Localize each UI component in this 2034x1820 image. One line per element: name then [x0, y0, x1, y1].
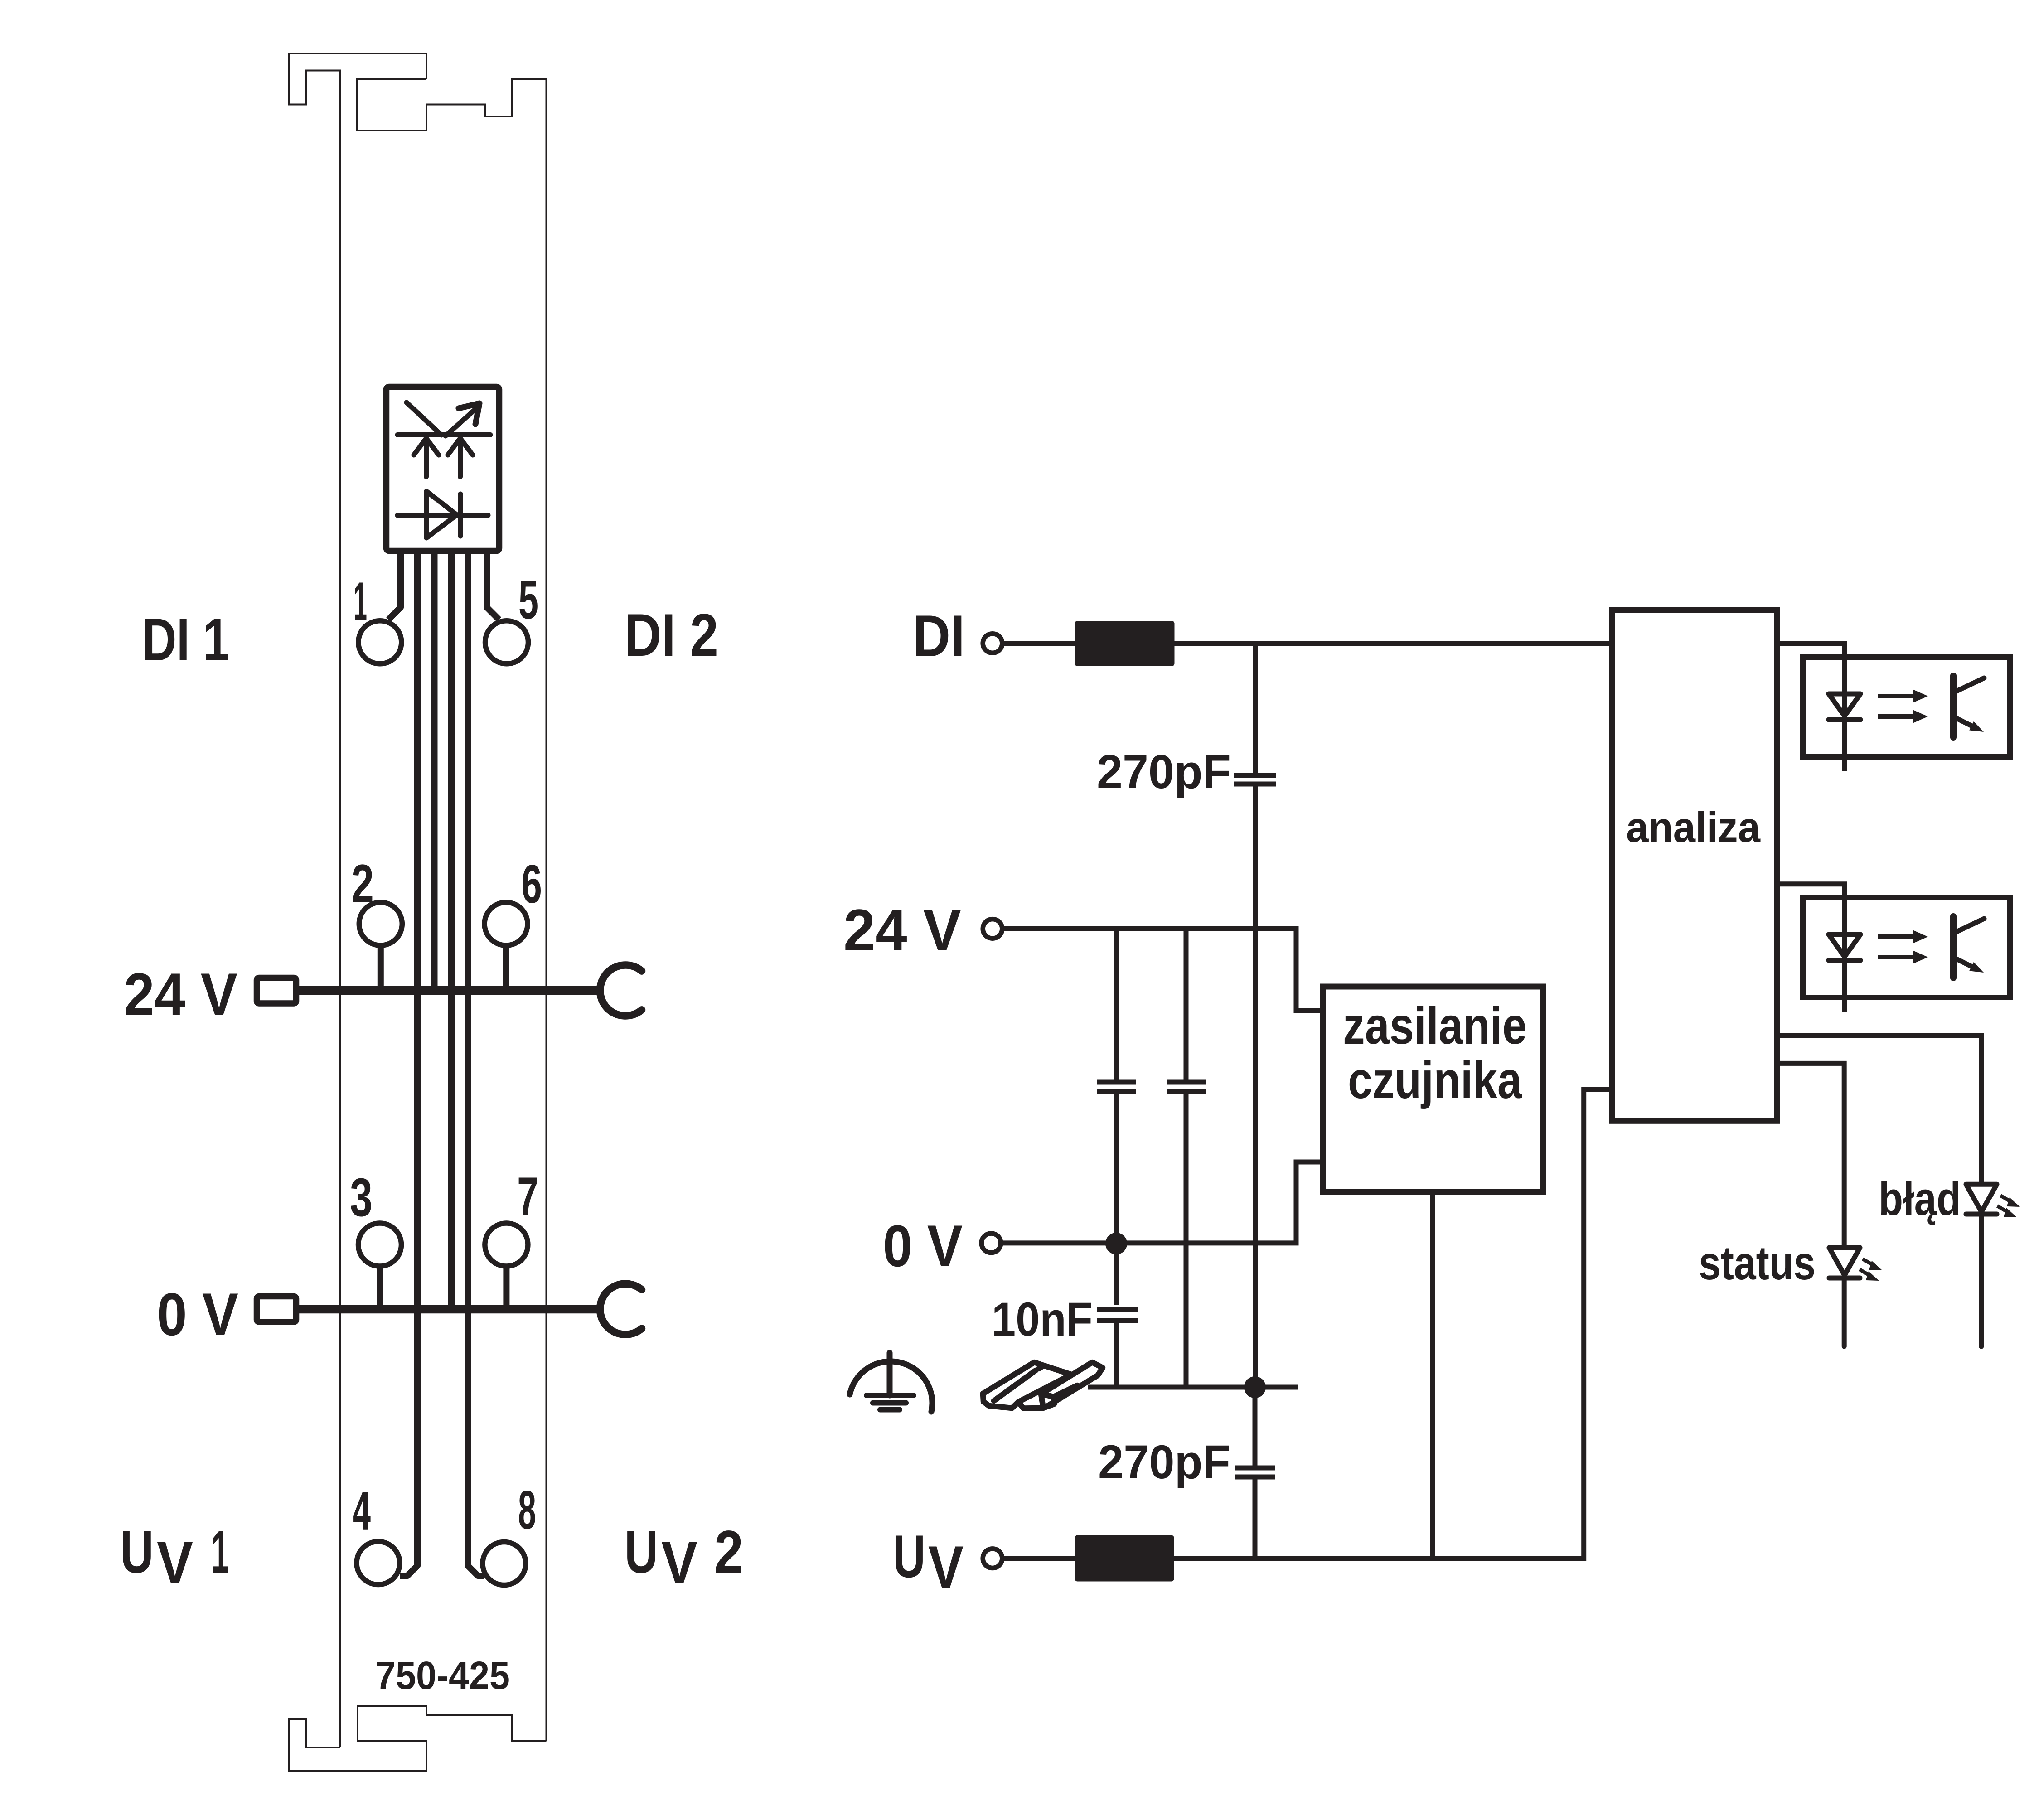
svg-text:2: 2 — [714, 1519, 743, 1586]
svg-text:2: 2 — [351, 853, 374, 914]
svg-text:V: V — [928, 1534, 964, 1601]
svg-text:status: status — [1699, 1237, 1816, 1290]
svg-text:5: 5 — [518, 570, 538, 630]
svg-text:czujnika: czujnika — [1348, 1051, 1522, 1109]
svg-text:8: 8 — [518, 1480, 536, 1540]
svg-text:błąd: błąd — [1879, 1172, 1961, 1225]
svg-text:24 V: 24 V — [843, 897, 961, 963]
svg-text:0 V: 0 V — [883, 1213, 963, 1279]
svg-text:1: 1 — [354, 571, 367, 632]
svg-text:U: U — [625, 1519, 658, 1586]
svg-text:270pF: 270pF — [1097, 745, 1231, 799]
svg-text:0 V: 0 V — [157, 1281, 238, 1348]
svg-text:DI: DI — [913, 603, 965, 669]
svg-text:24 V: 24 V — [124, 961, 237, 1028]
svg-text:U: U — [120, 1519, 154, 1586]
svg-text:zasilanie: zasilanie — [1343, 997, 1527, 1055]
svg-text:4: 4 — [353, 1481, 371, 1541]
svg-text:V: V — [661, 1530, 697, 1597]
svg-text:10nF: 10nF — [992, 1293, 1093, 1346]
svg-text:3: 3 — [350, 1167, 373, 1228]
svg-text:analiza: analiza — [1626, 804, 1761, 852]
svg-text:270pF: 270pF — [1098, 1436, 1230, 1489]
svg-text:750-425: 750-425 — [375, 1654, 510, 1698]
svg-text:6: 6 — [521, 854, 542, 915]
svg-text:U: U — [893, 1523, 925, 1590]
svg-text:1: 1 — [211, 1519, 229, 1586]
svg-text:V: V — [157, 1530, 193, 1597]
svg-text:DI 2: DI 2 — [625, 602, 718, 669]
svg-text:DI 1: DI 1 — [142, 606, 229, 673]
svg-text:7: 7 — [517, 1166, 538, 1227]
